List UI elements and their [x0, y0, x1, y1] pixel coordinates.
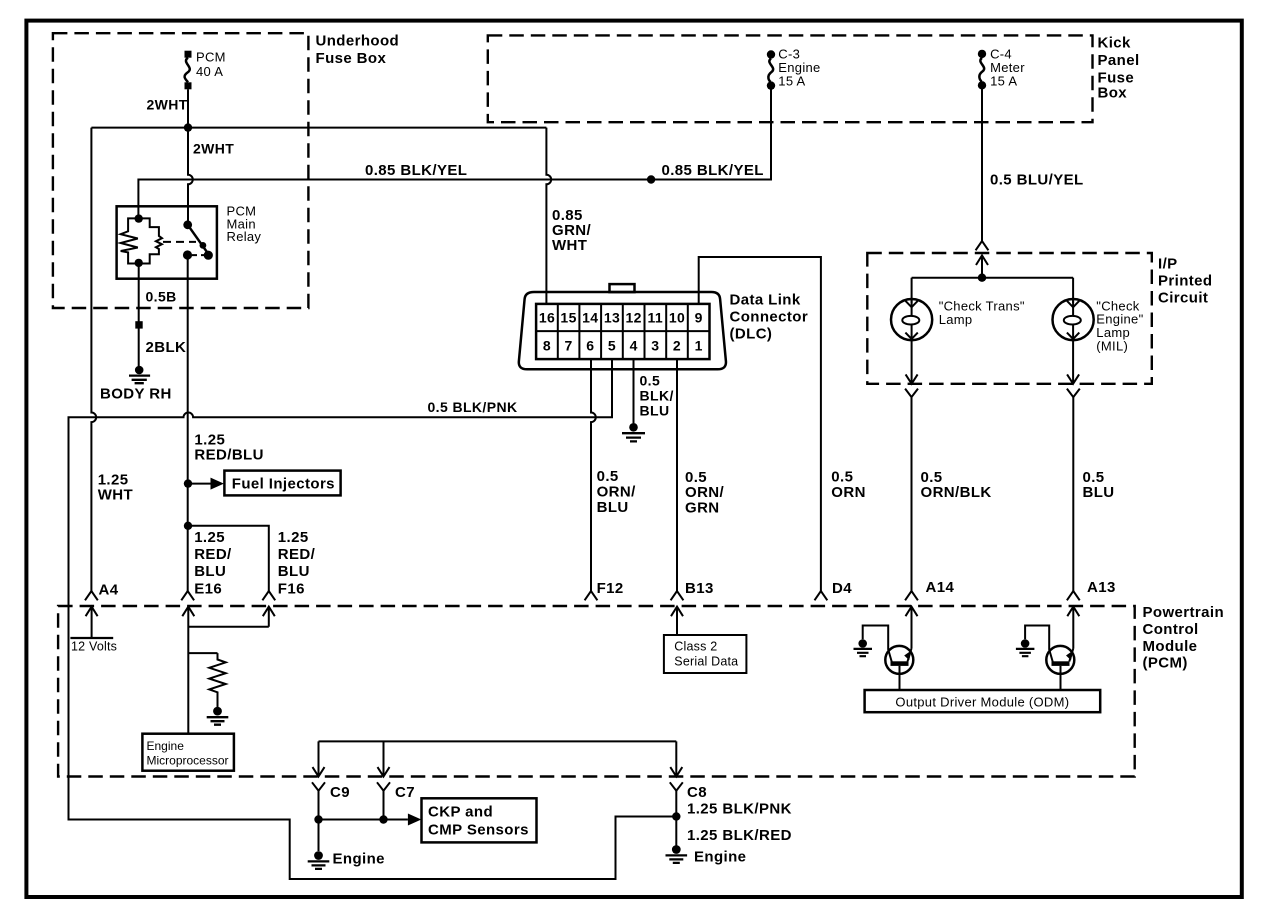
svg-text:BLU: BLU — [597, 499, 629, 516]
ground BODY RH — [129, 366, 150, 384]
connector forks below I/P box — [905, 389, 918, 398]
svg-text:ORN/: ORN/ — [685, 484, 725, 501]
I/P printed circuit box (dashed outline) — [867, 253, 1152, 384]
svg-text:1.25: 1.25 — [278, 529, 309, 546]
DLC pin numbers row 2 — [543, 338, 703, 354]
svg-text:C8: C8 — [687, 784, 707, 801]
fuse C-4 Meter 15A — [978, 50, 986, 90]
PCM internal arrow A13 — [1067, 607, 1079, 649]
svg-text:RED/BLU: RED/BLU — [194, 447, 263, 464]
12 Volts bar — [70, 637, 113, 639]
svg-text:Printed: Printed — [1158, 273, 1212, 290]
junction E16/F16 split — [184, 522, 192, 530]
svg-text:Microprocessor: Microprocessor — [147, 754, 229, 768]
arrow into CKP box — [408, 814, 421, 826]
svg-text:Fuel Injectors: Fuel Injectors — [232, 476, 335, 493]
PCM internal arrow E16 — [182, 607, 194, 734]
junction C9 — [314, 815, 322, 823]
svg-text:12: 12 — [626, 310, 642, 326]
svg-text:Serial Data: Serial Data — [674, 655, 738, 669]
svg-text:F16: F16 — [278, 580, 305, 597]
ground (C9 Engine) — [308, 851, 330, 869]
svg-text:6: 6 — [586, 338, 594, 354]
svg-text:1.25: 1.25 — [194, 529, 225, 546]
svg-text:BLK/: BLK/ — [640, 388, 674, 404]
svg-text:Panel: Panel — [1098, 52, 1140, 69]
junction C8 — [672, 812, 680, 820]
wire C8 down to ground — [675, 791, 677, 846]
wire C9 exit with arrow at PCM boundary — [313, 741, 325, 776]
lamp "Check Trans" — [891, 278, 932, 341]
wire C9/C7/C8 internal ground bus — [319, 740, 677, 742]
powertrain control module box (dashed outline) — [58, 606, 1135, 777]
connector fork A14 — [905, 591, 918, 600]
svg-text:D4: D4 — [832, 580, 852, 597]
wire 2BLK coil to ground — [138, 264, 140, 367]
connector fork C8 (below boundary) — [670, 782, 683, 790]
wire C7 down — [383, 791, 385, 820]
DLC top tab — [610, 284, 635, 292]
svg-text:0.5B: 0.5B — [146, 289, 177, 305]
svg-text:WHT: WHT — [98, 487, 133, 504]
svg-text:Control: Control — [1143, 621, 1199, 638]
wire C8 exit with arrow at PCM boundary — [670, 741, 682, 776]
svg-text:Powertrain: Powertrain — [1143, 604, 1225, 621]
svg-text:11: 11 — [647, 310, 663, 326]
svg-text:15 A: 15 A — [778, 74, 805, 89]
svg-text:2: 2 — [673, 338, 681, 354]
lamp "Check Engine" (MIL) — [1053, 278, 1094, 341]
svg-text:(DLC): (DLC) — [730, 326, 773, 343]
svg-text:4: 4 — [630, 338, 638, 354]
svg-text:PCM: PCM — [196, 50, 226, 65]
svg-text:1: 1 — [695, 338, 703, 354]
svg-text:C7: C7 — [395, 784, 415, 801]
transistor Q2 (ODM driver, right) — [1025, 626, 1074, 691]
ground (DLC pin 4) — [622, 423, 645, 441]
svg-text:E16: E16 — [194, 580, 222, 597]
box: Class 2 Serial Data — [664, 635, 747, 673]
box: Output Driver Module (ODM) — [865, 690, 1101, 712]
svg-text:0.5: 0.5 — [831, 469, 853, 486]
junction 2WHT split — [184, 123, 192, 131]
connector fork C7 (below boundary) — [377, 782, 390, 790]
svg-text:Meter: Meter — [990, 60, 1025, 75]
ground (PCM resistor) — [207, 707, 229, 725]
connector fork above I/P box — [976, 241, 989, 250]
svg-text:10: 10 — [669, 310, 685, 326]
svg-text:Kick: Kick — [1098, 35, 1132, 52]
svg-text:CMP Sensors: CMP Sensors — [428, 822, 529, 839]
svg-text:2BLK: 2BLK — [146, 339, 187, 356]
svg-text:1.25 BLK/RED: 1.25 BLK/RED — [687, 827, 792, 844]
svg-text:Engine: Engine — [694, 849, 746, 866]
wire C9 down to CKP/ground — [318, 791, 320, 851]
ground (C8 Engine) — [666, 845, 688, 863]
svg-text:Engine: Engine — [778, 60, 820, 75]
svg-text:RED/: RED/ — [278, 546, 316, 563]
svg-text:0.5: 0.5 — [640, 373, 661, 389]
svg-text:Connector: Connector — [730, 309, 809, 326]
svg-text:Lamp: Lamp — [939, 312, 973, 327]
svg-text:2WHT: 2WHT — [193, 141, 234, 157]
lamp outputs down with arrows at I/P boundary — [906, 340, 918, 384]
svg-text:5: 5 — [608, 338, 616, 354]
svg-text:2WHT: 2WHT — [147, 97, 188, 113]
wire 0.85 BLK/YEL (relay coil to C-3 fuse) — [138, 86, 771, 219]
wire 2WHT fuse down to relay common (vertical, hops over BLK/YEL) — [188, 89, 193, 225]
relay PCM Main Relay: outline box — [117, 206, 217, 278]
svg-text:14: 14 — [582, 310, 598, 326]
connector fork E16 — [181, 591, 194, 600]
connector fork B13 — [671, 591, 684, 600]
I/P internal: arrow up into box — [976, 255, 988, 277]
junction square on 2BLK — [135, 321, 142, 328]
wire branch to pull-up resistor — [188, 652, 217, 654]
svg-text:BODY RH: BODY RH — [100, 386, 172, 403]
svg-text:F12: F12 — [597, 580, 624, 597]
svg-text:CKP and: CKP and — [428, 804, 493, 821]
svg-text:BLU: BLU — [1083, 484, 1115, 501]
svg-text:ORN/: ORN/ — [597, 484, 637, 501]
svg-text:Class 2: Class 2 — [674, 640, 717, 654]
svg-text:0.5 BLU/YEL: 0.5 BLU/YEL — [990, 172, 1084, 189]
svg-text:BLU: BLU — [640, 403, 670, 419]
underhood fuse box (dashed outline) — [53, 33, 309, 308]
svg-text:Relay: Relay — [227, 229, 262, 244]
svg-text:I/P: I/P — [1158, 256, 1178, 273]
wire DLC pin 4 to ground — [633, 359, 635, 423]
svg-text:Underhood: Underhood — [316, 32, 400, 49]
svg-text:BLU: BLU — [194, 563, 226, 580]
arrow to Fuel Injectors — [192, 483, 211, 485]
wire 0.85 GRN/WHT vertical to DLC pin 16 (hops over BLK/YEL) — [546, 128, 551, 304]
svg-text:A14: A14 — [926, 579, 955, 596]
svg-text:RED/: RED/ — [194, 546, 232, 563]
svg-text:15 A: 15 A — [990, 74, 1017, 89]
connector fork F16 — [262, 591, 275, 600]
wire 0.5 ORN/BLK to A14 — [911, 397, 913, 591]
svg-text:Data Link: Data Link — [730, 292, 801, 309]
svg-text:ORN/BLK: ORN/BLK — [921, 484, 992, 501]
wire DLC pin 6 down to F12 (hops over BLK/PNK) — [591, 359, 596, 591]
svg-text:1.25 BLK/PNK: 1.25 BLK/PNK — [687, 801, 792, 818]
svg-text:0.5: 0.5 — [597, 468, 619, 485]
connector fork A13 — [1067, 591, 1080, 600]
svg-text:9: 9 — [695, 310, 703, 326]
svg-text:7: 7 — [565, 338, 573, 354]
svg-text:Output Driver Module (ODM): Output Driver Module (ODM) — [895, 695, 1069, 710]
svg-text:Engine: Engine — [147, 739, 185, 753]
svg-text:12 Volts: 12 Volts — [71, 639, 117, 653]
svg-text:8: 8 — [543, 338, 551, 354]
svg-text:0.5 BLK/PNK: 0.5 BLK/PNK — [428, 399, 518, 415]
svg-text:Fuse Box: Fuse Box — [316, 50, 387, 67]
ground (Q1 base) — [854, 639, 873, 656]
wire 0.5 BLU to A13 — [1072, 397, 1074, 591]
svg-text:Box: Box — [1098, 85, 1128, 102]
svg-text:Circuit: Circuit — [1158, 290, 1208, 307]
junction C7 — [379, 815, 387, 823]
svg-text:15: 15 — [560, 310, 576, 326]
wire DLC pin 2 down to B13 — [676, 359, 678, 591]
wire C7 exit with arrow at PCM boundary — [378, 741, 390, 776]
relay switch — [183, 220, 213, 259]
wire split to F16 — [188, 526, 269, 591]
kick panel fuse box (dashed outline) — [488, 35, 1093, 122]
PCM internal arrow B13 — [671, 607, 683, 635]
box: Engine Microprocessor — [142, 734, 234, 771]
svg-text:0.85 BLK/YEL: 0.85 BLK/YEL — [365, 162, 467, 179]
DLC pin grid — [536, 304, 709, 359]
svg-text:3: 3 — [651, 338, 659, 354]
junction on I/P feed — [978, 274, 986, 282]
PCM internal arrow A14 — [906, 607, 918, 649]
svg-text:GRN: GRN — [685, 500, 720, 517]
svg-text:C9: C9 — [330, 784, 350, 801]
relay coil (stepped outline with zigzag) — [121, 214, 162, 267]
connector fork F12 — [585, 591, 598, 600]
ground (Q2 base) — [1016, 639, 1035, 656]
relay linkage (dashed) — [163, 241, 196, 243]
I/P internal feed wire — [912, 277, 1074, 279]
wire E16/F16 internal join — [188, 626, 268, 628]
connector fork C9 (below boundary) — [312, 782, 325, 790]
svg-text:A4: A4 — [99, 582, 119, 599]
PCM internal arrow F16 — [263, 607, 275, 627]
resistor (PCM internal) — [209, 653, 225, 707]
svg-text:BLU: BLU — [278, 563, 310, 580]
svg-text:(MIL): (MIL) — [1096, 338, 1128, 353]
DLC pin numbers row 1 — [539, 310, 703, 326]
connector fork D4 — [815, 591, 828, 600]
wire to CKP sensors — [319, 819, 408, 821]
box: Fuel Injectors — [224, 471, 340, 496]
wire 2WHT horizontal distribution — [91, 127, 546, 129]
wire relay switch output down (1.25 RED/BLU feed) — [187, 255, 189, 591]
svg-text:A13: A13 — [1087, 579, 1116, 596]
wire 0.5 BLU/YEL C-4 down to I/P — [981, 89, 983, 241]
wire 1.25 WHT left vertical to A4 (hops over BLK/PNK) — [91, 128, 96, 591]
svg-text:ORN: ORN — [831, 484, 866, 501]
wire 0.5 BLK/PNK: DLC pin 5 left, down and around to C8 junction — [69, 359, 677, 879]
transistor Q1 (ODM driver, left) — [863, 626, 914, 691]
svg-text:B13: B13 — [685, 580, 714, 597]
svg-text:13: 13 — [604, 310, 620, 326]
svg-text:WHT: WHT — [552, 237, 587, 254]
PCM internal arrow A4 — [86, 607, 98, 638]
svg-text:0.85 BLK/YEL: 0.85 BLK/YEL — [662, 162, 764, 179]
DLC connector shell (rounded trapezoid) — [519, 292, 726, 369]
wire DLC pin 9 up and over to D4 — [699, 257, 821, 591]
svg-text:16: 16 — [539, 310, 555, 326]
fuse C-3 Engine 15A — [767, 50, 775, 90]
wire 1.25 RED/BLU taps: Fuel Injectors junction — [184, 479, 192, 487]
junction on BLK/YEL wire — [647, 175, 655, 183]
connector fork A4 (above PCM boundary) — [85, 591, 98, 600]
svg-text:(PCM): (PCM) — [1143, 655, 1188, 672]
svg-text:Module: Module — [1143, 638, 1198, 655]
svg-text:Engine: Engine — [333, 851, 385, 868]
fuse PCM 40A — [185, 51, 192, 90]
box: CKP and CMP Sensors — [422, 798, 537, 842]
svg-text:40 A: 40 A — [196, 64, 223, 79]
